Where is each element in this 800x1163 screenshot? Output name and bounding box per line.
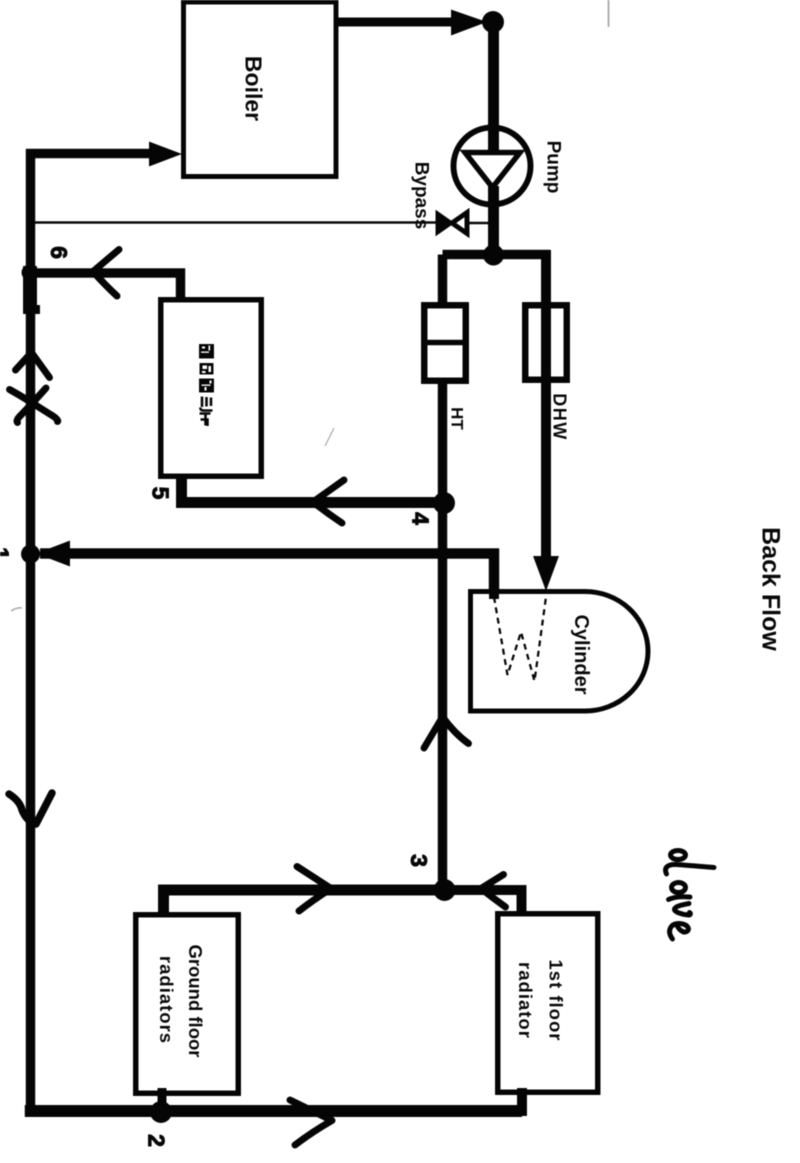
kitchen radiator box xyxy=(161,300,262,477)
wire: HT branch stub down xyxy=(438,255,448,307)
kitchen radiator label char 5 xyxy=(200,414,211,427)
flow chevron left on kitchen return xyxy=(313,480,344,523)
corner dot above pump xyxy=(482,11,504,33)
node 2 dot xyxy=(150,1101,172,1123)
pump triangle xyxy=(465,153,520,188)
node 1 dot xyxy=(21,545,40,564)
svg-text:4: 4 xyxy=(408,512,434,525)
wire: HT pipe below valve down to node 3 xyxy=(438,380,448,895)
svg-text:radiators: radiators xyxy=(156,956,177,1044)
svg-text:1st floor: 1st floor xyxy=(546,960,567,1042)
svg-text:Ground floor: Ground floor xyxy=(185,944,206,1057)
arrowhead at pump corner xyxy=(451,10,487,36)
svg-text:Pump: Pump xyxy=(543,141,564,194)
kitchen radiator label char 1 xyxy=(199,344,214,359)
node 6 junction blob xyxy=(22,265,41,315)
kitchen radiator label char 4 xyxy=(200,397,212,411)
flow chevron up on HT pipe xyxy=(424,717,469,748)
svg-text:Boiler: Boiler xyxy=(241,56,267,121)
svg-text:6: 6 xyxy=(46,246,72,259)
wire: node1 horizontal to cylinder drop xyxy=(40,554,494,600)
wire: pipe below pump to branch node xyxy=(488,186,499,258)
scan speck near node 1 xyxy=(11,608,22,611)
wire: DHW pipe through valve down to cylinder xyxy=(541,250,551,558)
svg-text:HT: HT xyxy=(448,407,467,430)
svg-text:DHW: DHW xyxy=(550,393,570,441)
svg-text:3: 3 xyxy=(406,854,432,867)
branch node dot below pump xyxy=(483,245,504,266)
wire: cylinder inlet drop (redrawn over cylinder) xyxy=(489,560,499,599)
flow chevron down on left pipe xyxy=(9,793,52,824)
valve X on left pipe xyxy=(10,388,58,423)
scan speck near node 4 xyxy=(325,428,334,446)
node 3 dot xyxy=(434,879,456,901)
svg-text:5: 5 xyxy=(148,487,174,500)
wire: branch header horizontal xyxy=(443,250,551,260)
svg-text:2: 2 xyxy=(144,1134,170,1147)
wire: pipe down to pump xyxy=(488,22,499,156)
wire: left main return pipe vertical xyxy=(26,149,36,1111)
wire: pipe inside pump top xyxy=(488,125,499,157)
DHW arrowhead into cylinder xyxy=(533,556,559,591)
1st floor radiator box xyxy=(498,914,598,1093)
wire: node 6 branch to kitchen radiator xyxy=(31,273,181,302)
kitchen radiator label char 2 xyxy=(200,363,214,375)
wire: ground floor bottom stub xyxy=(158,1088,167,1112)
wire: boiler outlet to pump corner xyxy=(335,18,455,27)
flow chevron right on bottom line xyxy=(290,1100,332,1145)
arrowhead into boiler xyxy=(149,142,182,167)
boiler box xyxy=(184,2,337,177)
wire: bypass line right segment to pump pipe xyxy=(467,222,490,225)
svg-text:1: 1 xyxy=(0,547,14,560)
ground floor radiators box xyxy=(136,915,239,1094)
flow chevron on node6 branch pointing left xyxy=(93,250,119,297)
DHW valve box xyxy=(525,305,567,380)
svg-text:Bypass: Bypass xyxy=(411,162,432,230)
scan artifact line top right xyxy=(608,0,610,27)
signature dave xyxy=(666,851,714,940)
svg-text:Back Flow: Back Flow xyxy=(757,527,785,651)
flow chevron up on left pipe xyxy=(16,353,50,378)
wire: ground floor feed line xyxy=(164,890,450,914)
wire: top-left flow pipe to boiler xyxy=(26,149,152,159)
node 1 arrowhead pointing left xyxy=(36,541,70,567)
kitchen radiator label char 3 xyxy=(199,379,214,393)
svg-text:Cylinder: Cylinder xyxy=(570,614,592,694)
wire: 1st floor feed line xyxy=(444,890,522,914)
HT valve box xyxy=(421,305,469,381)
wire: bypass thin line xyxy=(31,221,437,224)
node 4 dot xyxy=(433,492,455,514)
flow chevron right on ground feed xyxy=(297,867,331,912)
wire: kitchen radiator return to node 4 xyxy=(182,476,450,503)
flow chevron left on 1st floor feed xyxy=(481,875,506,908)
svg-text:radiator: radiator xyxy=(515,962,536,1039)
coil W dashed inside cylinder xyxy=(494,597,546,681)
cylinder xyxy=(471,592,649,712)
pump U1 circle xyxy=(454,128,531,205)
bypass valve xyxy=(437,213,467,234)
wire: 1st floor bottom stub xyxy=(517,1088,527,1116)
wire: bottom return line xyxy=(25,1105,522,1117)
